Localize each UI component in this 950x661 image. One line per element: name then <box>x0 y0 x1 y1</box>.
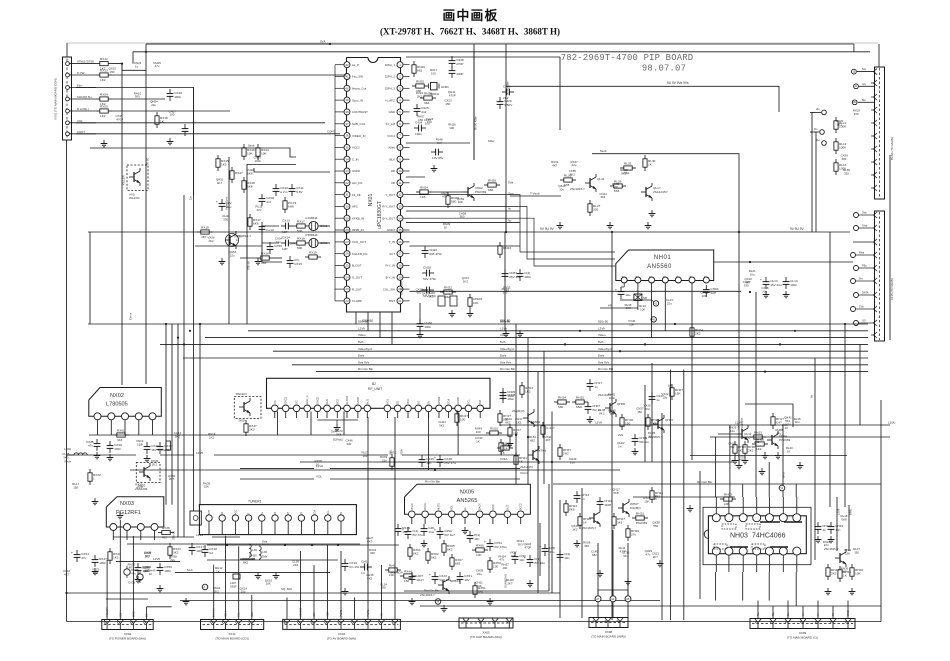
svg-text:ATM(1-3)TS8: ATM(1-3)TS8 <box>77 60 94 64</box>
junction <box>579 330 581 332</box>
module TUNER1 pin 10 <box>325 515 331 521</box>
svg-text:SDA: SDA <box>447 399 450 404</box>
svg-text:RH15: RH15 <box>576 396 584 400</box>
ground cl14 <box>765 291 767 295</box>
svg-text:(TO MAIN BOARD (CO)): (TO MAIN BOARD (CO)) <box>215 637 248 641</box>
svg-text:VCC2: VCC2 <box>520 503 523 510</box>
svg-text:Ein: Ein <box>189 196 193 200</box>
resistor RH01b <box>542 422 544 426</box>
svg-text:(TO CHP BOARD (MA)): (TO CHP BOARD (MA)) <box>470 635 502 639</box>
svg-text:6K8: 6K8 <box>626 306 632 310</box>
wire vertical 76 <box>811 112 813 232</box>
IC NH03 switch dash 3 <box>714 544 727 549</box>
IC NX02 pin 3 <box>122 413 129 420</box>
svg-text:3.58MHZ: 3.58MHZ <box>305 233 318 237</box>
svg-text:2K2: 2K2 <box>748 448 754 452</box>
module NX05 enclosure bottom <box>404 590 549 592</box>
svg-text:10u: 10u <box>750 272 755 276</box>
wire vertical 30 <box>355 312 357 324</box>
svg-text:SDA: SDA <box>400 449 404 455</box>
svg-text:5.8V: 5.8V <box>296 190 303 194</box>
wire vertical 28 <box>428 412 430 471</box>
svg-text:QH06: QH06 <box>617 402 625 406</box>
svg-text:KILLER: KILLER <box>122 175 126 185</box>
svg-text:29: 29 <box>345 216 349 220</box>
svg-text:L2V5: L2V5 <box>153 557 160 561</box>
wire vertical 77 <box>815 132 817 232</box>
wire vertical 16 <box>286 598 288 620</box>
wire killer <box>406 142 470 144</box>
svg-text:BT: BT <box>287 511 290 515</box>
svg-text:10K: 10K <box>473 301 478 305</box>
svg-text:1K2: 1K2 <box>572 527 578 531</box>
resistor RH26 <box>579 513 581 517</box>
IC NH03 bottom pin 4 <box>753 547 761 555</box>
resistor RN28 <box>484 184 488 186</box>
IC NX01 right pin 11 <box>397 180 403 186</box>
connector BLSK pin 9 <box>874 172 878 178</box>
wire vertical 67 <box>755 292 757 448</box>
capacitor CX45b <box>421 455 423 460</box>
svg-text:5sub: 5sub <box>600 149 607 153</box>
ground <box>257 572 259 576</box>
svg-text:SDA: SDA <box>251 612 254 617</box>
svg-text:4K7: 4K7 <box>64 572 70 576</box>
connector XX04 pin 6 <box>354 623 356 629</box>
wire horizontal 12 <box>207 559 338 561</box>
resistor RX46 <box>243 144 245 148</box>
svg-text:560: 560 <box>451 199 456 203</box>
svg-text:XX08: XX08 <box>605 630 613 634</box>
connector XX02 pin 3 <box>132 624 134 630</box>
svg-text:363: 363 <box>363 454 368 458</box>
IC NX01 left pin 30 <box>344 203 350 209</box>
svg-text:8K2: 8K2 <box>447 547 453 551</box>
svg-text:GND2: GND2 <box>352 169 360 173</box>
svg-text:R(4): R(4) <box>389 564 395 568</box>
svg-text:TUNER1: TUNER1 <box>248 500 262 504</box>
svg-text:10n: 10n <box>570 460 575 464</box>
svg-text:AN5560: AN5560 <box>647 264 672 270</box>
svg-text:RH13: RH13 <box>754 431 762 435</box>
connector BLSK pin 5 <box>874 120 878 126</box>
svg-text:682: 682 <box>455 561 460 565</box>
svg-text:2K2: 2K2 <box>417 95 423 99</box>
connector XX02 dashed line <box>104 624 151 626</box>
wire vertical 18 <box>313 565 315 619</box>
svg-text:1K: 1K <box>149 572 153 576</box>
capacitor CX44 <box>360 566 365 568</box>
resistor RX66 <box>472 549 476 551</box>
IC NX01 right pin 7 <box>397 133 403 139</box>
ground <box>851 588 853 592</box>
ground <box>411 598 413 602</box>
svg-text:VideoSync: VideoSync <box>358 347 373 351</box>
connector XX11 body <box>201 620 264 630</box>
junction <box>121 63 123 65</box>
inductor LX5 <box>249 544 251 557</box>
ground <box>469 310 471 314</box>
svg-text:782-2969T-4700 PIP BOARD: 782-2969T-4700 PIP BOARD <box>561 53 694 63</box>
svg-text:SDA: SDA <box>314 510 317 515</box>
connector XX09 pin 1 <box>757 623 759 629</box>
svg-text:SCL: SCL <box>327 510 330 515</box>
svg-text:1n: 1n <box>361 571 365 575</box>
svg-text:11: 11 <box>399 181 402 185</box>
pin circle Du <box>820 130 825 135</box>
IC NX01 right pin 13 <box>397 203 403 209</box>
svg-text:15K: 15K <box>204 485 209 489</box>
svg-text:Killer: Killer <box>389 146 395 150</box>
wire vertical 3 <box>119 520 121 620</box>
module NX05 enclosure right <box>548 484 550 591</box>
connector XX05 pin 1 <box>465 622 467 628</box>
svg-text:30: 30 <box>345 205 349 209</box>
svg-text:6K8: 6K8 <box>253 221 259 225</box>
svg-text:4K7: 4K7 <box>201 235 207 239</box>
resistor RH24b <box>651 487 653 491</box>
svg-text:L2Vh: L2Vh <box>598 326 605 330</box>
wire vertical 45 <box>597 543 599 596</box>
pin circle W2 small <box>779 485 785 491</box>
svg-text:4K7: 4K7 <box>129 566 135 570</box>
svg-text:5V: 5V <box>340 512 343 515</box>
svg-text:VCC: VCC <box>407 399 410 404</box>
resistor RH17 <box>509 424 511 428</box>
svg-text:GND2: GND2 <box>317 396 320 404</box>
capacitor CL13 <box>785 277 787 282</box>
svg-text:98.07.07: 98.07.07 <box>642 64 686 74</box>
svg-text:GND5: GND5 <box>457 396 460 404</box>
pin circle 2in <box>822 110 827 115</box>
svg-text:C-44?: C-44? <box>546 426 555 430</box>
capacitor CX31 <box>261 222 263 227</box>
svg-text:2K2: 2K2 <box>208 239 214 243</box>
svg-text:RH05: RH05 <box>756 438 764 442</box>
svg-text:15K: 15K <box>644 499 649 503</box>
inductor LX6 <box>259 546 261 559</box>
svg-text:Ein+: Ein+ <box>77 84 83 88</box>
svg-text:100n: 100n <box>424 325 431 329</box>
svg-text:Video: Video <box>358 333 366 337</box>
svg-text:18: 18 <box>398 264 402 268</box>
resistor RH08 <box>744 441 746 445</box>
wire conn2 vert feed <box>853 241 871 243</box>
connector XX05 pin 4 <box>508 622 510 628</box>
svg-text:33: 33 <box>345 169 349 173</box>
resistor RH13 mid <box>750 436 754 438</box>
capacitor C424 <box>414 127 419 129</box>
ground <box>103 140 105 144</box>
resistor RX54 <box>96 98 100 100</box>
svg-text:5VA: 5VA <box>320 40 325 44</box>
wire vertical 33 <box>391 312 393 344</box>
svg-text:SCL: SCL <box>238 612 241 617</box>
connector XR2 dashed line <box>879 212 881 340</box>
svg-text:Rin Gin Bin: Rin Gin Bin <box>358 367 374 371</box>
wire v x122 <box>121 64 123 385</box>
IC NX01 right pin 18 <box>397 263 403 269</box>
module RF_UNIT pin 9 <box>355 405 362 412</box>
junction <box>165 323 167 325</box>
capacitor CX49 <box>423 524 425 529</box>
wire vertical 71 <box>787 601 789 619</box>
IC NX01 left pin 42 <box>344 62 350 68</box>
IC NX01 left pin 26 <box>344 251 350 257</box>
connector XX04 pin 1 <box>286 623 288 629</box>
svg-text:RN10: RN10 <box>490 427 498 431</box>
svg-text:Rin: Rin <box>757 612 760 616</box>
IC NX05 pin 3 <box>435 511 442 518</box>
wire vertical 59 <box>755 448 757 497</box>
connector BLSK pin 7 <box>874 146 878 152</box>
wire vertical 49 <box>651 363 653 462</box>
capacitor CH15 <box>830 522 832 527</box>
wire vertical 39 <box>543 351 545 484</box>
svg-text:Killer: Killer <box>488 139 495 143</box>
wire NH01 pin3 down <box>620 283 652 300</box>
module NH03 enclosure <box>703 507 811 564</box>
pin circle R2-4 <box>854 266 859 271</box>
svg-text:1K2: 1K2 <box>516 420 522 424</box>
IC NX01 left pin 24 <box>344 274 350 280</box>
svg-text:47u: 47u <box>88 443 93 447</box>
wire v x146 <box>145 44 147 384</box>
resistor RH29 <box>627 525 629 529</box>
svg-text:100: 100 <box>460 417 465 421</box>
ground <box>344 588 346 592</box>
svg-text:560r: 560r <box>576 405 582 409</box>
IC NX05 pin 8 <box>504 511 511 518</box>
transistor QH06 <box>609 403 611 413</box>
connector XX09 pin 6 <box>832 623 834 629</box>
svg-text:1K5: 1K5 <box>221 162 227 166</box>
svg-text:100: 100 <box>739 458 744 462</box>
pin circle R2-6 <box>854 293 859 298</box>
wire vertical 22 <box>367 417 369 619</box>
svg-text:CN18: CN18 <box>423 265 431 269</box>
resistor RX17 <box>249 214 251 218</box>
svg-text:Ea/a: Ea/a <box>598 354 605 358</box>
wire pin5 <box>112 110 230 112</box>
module RF_UNIT body <box>267 378 491 408</box>
svg-text:363: 363 <box>135 95 140 99</box>
wire IC right pin stubs <box>403 64 409 66</box>
svg-text:2V: 2V <box>428 401 431 404</box>
capacitor CX58 <box>529 555 531 560</box>
module TUNER1 pin 1 <box>206 515 212 521</box>
svg-text:10n: 10n <box>835 528 840 532</box>
svg-text:CX13: CX13 <box>282 218 290 222</box>
svg-text:22u: 22u <box>226 205 231 209</box>
svg-text:9Va 9Vs: 9Va 9Vs <box>500 360 512 364</box>
wire pin1 jog <box>112 64 146 71</box>
wire vertical 20 <box>340 551 342 619</box>
svg-text:5VA: 5VA <box>358 340 363 344</box>
svg-text:10n: 10n <box>389 573 394 577</box>
svg-text:47u: 47u <box>499 558 504 562</box>
svg-text:9Va 9Vs: 9Va 9Vs <box>358 360 370 364</box>
wire NH01 pin6 down <box>691 283 693 460</box>
IC NX05 pin 7 <box>490 511 497 518</box>
svg-text:4.43MHZ: 4.43MHZ <box>305 216 318 220</box>
IC NH03 bottom pin 3 <box>739 547 747 555</box>
component L30 <box>233 574 240 579</box>
svg-text:APC: APC <box>352 205 358 209</box>
svg-text:6H8: 6H8 <box>288 204 294 208</box>
svg-text:RX55: RX55 <box>100 105 108 109</box>
svg-text:52v: 52v <box>862 67 867 71</box>
wire 12v5 b <box>160 454 194 456</box>
wire a7 stub <box>597 602 599 618</box>
svg-text:4K7: 4K7 <box>367 540 373 544</box>
connector BLSK dashed line <box>879 68 881 198</box>
IC NX01 right pin 6 <box>397 121 403 127</box>
svg-text:VCC2: VCC2 <box>352 146 360 150</box>
svg-text:10K: 10K <box>613 185 618 189</box>
svg-text:100: 100 <box>842 570 847 574</box>
svg-text:RX36: RX36 <box>162 526 170 530</box>
svg-text:10K: 10K <box>855 571 861 575</box>
wire ic right top <box>406 56 560 58</box>
svg-text:4K7: 4K7 <box>437 141 443 145</box>
connector XR2 pin 2 <box>874 225 878 231</box>
module RF_UNIT pin 16 <box>436 405 443 412</box>
module TUNER1 pin 6 <box>272 515 278 521</box>
pin circle 46 <box>651 317 656 322</box>
svg-text:47u: 47u <box>155 64 160 68</box>
capacitor CN30 <box>419 319 421 324</box>
resistor RX62 <box>427 548 429 552</box>
resistor RH18 <box>621 414 623 418</box>
wire vertical 43 <box>581 488 583 618</box>
svg-text:4K7: 4K7 <box>145 554 151 558</box>
wire x247 vert <box>247 165 296 325</box>
junction <box>183 343 185 345</box>
wire a7 top stub <box>597 590 599 596</box>
svg-text:KILLFR_FIL: KILLFR_FIL <box>352 252 368 256</box>
capacitor CX19 <box>344 559 346 564</box>
svg-text:(XT-2978T H、7662T H、3468T H、38: (XT-2978T H、7662T H、3468T H、3868T H) <box>380 26 560 36</box>
svg-text:330: 330 <box>593 207 598 211</box>
capacitor CX25 <box>96 439 98 444</box>
svg-text:16V 22u: 16V 22u <box>770 283 782 287</box>
transistor QH09 <box>593 513 595 523</box>
connector XX09 pin 2 <box>772 623 774 629</box>
svg-text:B+: B+ <box>261 511 264 515</box>
svg-text:COL_SW: COL_SW <box>383 287 395 291</box>
svg-text:74HC4066: 74HC4066 <box>752 533 786 540</box>
connector XR2 pin 4 <box>874 252 878 258</box>
svg-text:2K7: 2K7 <box>653 555 659 559</box>
svg-text:22u: 22u <box>230 253 235 257</box>
IC NX05 body <box>405 484 531 514</box>
resistor RH06 <box>734 441 736 445</box>
connector XX11 pin 4 <box>251 624 253 630</box>
connector XR2 pin 1 <box>874 212 878 218</box>
svg-text:GND: GND <box>389 110 395 114</box>
svg-text:5K1: 5K1 <box>439 424 445 428</box>
wire x739 ext <box>738 232 740 462</box>
svg-text:150: 150 <box>404 579 409 583</box>
module TUNER1 pin 2 <box>219 515 225 521</box>
wire vertical 55 <box>664 312 666 331</box>
svg-text:CX36: CX36 <box>128 581 136 585</box>
connector XX04 body <box>283 619 401 629</box>
capacitor C429 <box>499 97 501 102</box>
svg-text:10: 10 <box>398 169 402 173</box>
svg-text:CONTRAST: CONTRAST <box>352 110 368 114</box>
connector XR2 pin 7 <box>874 292 878 298</box>
svg-text:2K2: 2K2 <box>293 563 299 567</box>
pin circle R2-2 <box>854 226 859 231</box>
IC NX01 right pin 5 <box>397 109 403 115</box>
wire VOL <box>76 122 325 124</box>
svg-text:HP: HP <box>608 304 612 308</box>
IC NX05 pin 6 <box>476 511 483 518</box>
module TUNER1 pin 4 <box>245 515 251 521</box>
wire IC left vertical <box>334 65 336 301</box>
resistor RH19 <box>647 414 649 418</box>
junction <box>779 343 781 345</box>
capacitor CN19 <box>422 289 427 291</box>
ground <box>647 222 649 226</box>
svg-text:Iin: Iin <box>508 207 512 211</box>
connector XX01 pin 4 <box>66 97 70 101</box>
capacitor CH14c <box>544 544 546 549</box>
connector XR2 pin 8 <box>874 306 878 312</box>
wire vertical 81 <box>859 344 861 425</box>
wire bottom rail <box>67 621 882 623</box>
capacitor CX08 <box>261 194 263 199</box>
IC NH03 switch bar 4 <box>770 546 788 548</box>
svg-text:10u: 10u <box>241 590 246 594</box>
IC NH03 top pin 4 <box>756 497 758 514</box>
svg-text:VideoSync: VideoSync <box>598 347 613 351</box>
junction <box>644 343 646 345</box>
resistor RX43 <box>169 543 171 547</box>
junction <box>611 231 613 233</box>
svg-text:/6V 4u7: /6V 4u7 <box>444 533 455 537</box>
resistor RN25 <box>412 85 416 87</box>
IC NH01 pin 6 <box>689 277 695 283</box>
wire vol mid <box>240 478 314 480</box>
capacitor CX36 <box>137 574 143 580</box>
svg-text:4K7: 4K7 <box>217 181 223 185</box>
wire vertical 2 <box>106 560 108 620</box>
svg-text:LX0: LX0 <box>252 548 258 552</box>
svg-text:10u: 10u <box>662 395 667 399</box>
IC NH01 pin 4 <box>662 277 668 283</box>
capacitor CH13 <box>576 491 578 496</box>
IC NX01 right pin 16 <box>397 239 403 245</box>
IC NX01 left pin 22 <box>344 298 350 304</box>
svg-text:362: 362 <box>424 101 429 105</box>
wire vertical 47 <box>627 543 629 596</box>
svg-text:10V: 10V <box>464 578 470 582</box>
capacitor CX18 <box>204 545 206 550</box>
svg-text:VCC1: VCC1 <box>411 503 414 510</box>
resistor RH22 <box>559 444 561 448</box>
svg-text:682: 682 <box>417 291 422 295</box>
pin circle R2-8 <box>854 321 859 326</box>
resistor RX19b <box>305 256 309 258</box>
pin circle W mid <box>435 599 441 605</box>
svg-text:100n: 100n <box>507 397 514 401</box>
IC NX01 right pin 9 <box>397 156 403 162</box>
wire vertical 31 <box>367 312 369 331</box>
capacitor CX61 <box>459 572 461 577</box>
